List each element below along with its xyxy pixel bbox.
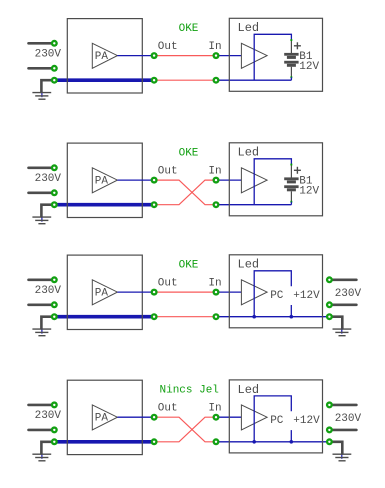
- supply wire 230V line2 (left): [29, 303, 55, 306]
- ground hookup wire (left): [41, 205, 54, 217]
- svg-text:Led: Led: [238, 258, 260, 272]
- ground hookup wire (left): [41, 80, 54, 92]
- pin node 230V-L2 left: [51, 301, 58, 308]
- ground hookup wire (left): [41, 317, 54, 329]
- ground node left: [51, 438, 58, 445]
- ground symbol (left): [32, 93, 51, 100]
- svg-text:Nincs Jel: Nincs Jel: [160, 385, 219, 397]
- PA amplifier triangle: [92, 43, 117, 68]
- signal net Out-In top (red): [154, 291, 216, 293]
- supply loop net (blue): [254, 271, 291, 317]
- svg-text:OKE: OKE: [179, 260, 199, 272]
- node In top: [213, 52, 220, 59]
- pin node 230V-L2 left: [51, 65, 58, 72]
- battery B1: [284, 39, 298, 80]
- node In bottom: [213, 438, 220, 445]
- node Out bottom: [151, 313, 158, 320]
- ground net stub (left): [41, 328, 43, 333]
- svg-text:12V: 12V: [299, 185, 319, 197]
- ground net stub (left): [41, 216, 43, 221]
- junction dot right: [290, 315, 294, 319]
- supply wire 230V line2 (right): [329, 303, 356, 306]
- ground node right: [326, 313, 333, 320]
- +12V net stub lower (blue): [290, 305, 292, 317]
- junction dot right: [290, 440, 294, 444]
- ground net stub (right): [341, 328, 343, 333]
- PA box: [67, 19, 142, 93]
- svg-text:+12V: +12V: [293, 415, 320, 427]
- pin node 230V-L1 left: [51, 276, 58, 283]
- svg-text:Led: Led: [238, 146, 260, 160]
- PA output net (blue): [117, 416, 154, 418]
- ground symbol (left): [32, 454, 51, 461]
- svg-text:PA: PA: [95, 412, 109, 424]
- node In bottom: [213, 313, 220, 320]
- node In top: [213, 414, 220, 421]
- supply loop net (blue): [254, 34, 291, 80]
- bus wire (thick blue net): [54, 315, 154, 319]
- signal net crossed A (red): [154, 180, 216, 205]
- ground net stub (left): [41, 454, 43, 459]
- Led amplifier triangle: [241, 405, 267, 430]
- node In top: [213, 289, 220, 296]
- Led box: [229, 255, 322, 328]
- svg-text:230V: 230V: [335, 288, 362, 300]
- supply wire 230V line1 (left): [29, 404, 55, 407]
- junction dot left: [252, 315, 256, 319]
- svg-text:In: In: [208, 402, 221, 414]
- svg-text:+12V: +12V: [293, 290, 320, 302]
- ground net stub (left): [41, 92, 43, 97]
- pin node 230V-L1 left: [51, 401, 58, 408]
- PA output net (blue): [117, 55, 154, 57]
- junction dot left: [252, 440, 256, 444]
- bottom return net in Led box (blue): [216, 79, 291, 81]
- bottom return net in Led box (blue): [216, 316, 329, 318]
- bottom return net in Led box (blue): [216, 441, 329, 443]
- signal net Out-In bottom (red): [154, 79, 216, 81]
- svg-text:OKE: OKE: [179, 148, 199, 160]
- svg-text:Out: Out: [158, 41, 178, 53]
- ground symbol (left): [32, 217, 51, 224]
- pin node 230V-L2 left: [51, 426, 58, 433]
- In net into Led box (blue): [216, 55, 241, 57]
- PA box: [67, 380, 142, 454]
- PA box: [67, 143, 142, 217]
- pin node 230V-L2 left: [51, 189, 58, 196]
- PA amplifier triangle: [92, 405, 117, 430]
- Led amplifier triangle: [241, 43, 267, 68]
- svg-text:12V: 12V: [299, 61, 319, 73]
- PA box: [67, 255, 142, 329]
- svg-text:Led: Led: [238, 383, 260, 397]
- ground node left: [51, 201, 58, 208]
- node Out bottom: [151, 438, 158, 445]
- svg-text:PC: PC: [270, 290, 284, 302]
- supply wire 230V line1 (right): [329, 278, 356, 281]
- node Out top: [151, 177, 158, 184]
- node Out top: [151, 414, 158, 421]
- supply wire 230V line2 (right): [329, 429, 356, 432]
- ground hookup wire (right): [329, 317, 342, 329]
- battery plus sign: [294, 42, 301, 49]
- PA output net (blue): [117, 291, 154, 293]
- node In bottom: [213, 77, 220, 84]
- svg-text:Out: Out: [158, 402, 178, 414]
- supply wire 230V line2 (left): [29, 192, 55, 195]
- ground node right: [326, 438, 333, 445]
- battery B1: [284, 164, 298, 205]
- signal net crossed B (red): [154, 180, 216, 205]
- supply wire 230V line2 (left): [29, 429, 55, 432]
- signal net crossed B (red): [154, 417, 216, 442]
- pin node 230V-R2 right: [326, 426, 333, 433]
- signal net Out-In top (red): [154, 55, 216, 57]
- pin node 230V-R1 right: [326, 401, 333, 408]
- ground node left: [51, 77, 58, 84]
- supply wire 230V line1 (right): [329, 404, 356, 407]
- +12V net stub lower (blue): [290, 430, 292, 442]
- bus wire (thick blue net): [54, 78, 154, 82]
- node In bottom: [213, 201, 220, 208]
- Led box: [229, 18, 322, 91]
- supply loop net (blue): [254, 396, 291, 442]
- pin node 230V-L1 left: [51, 164, 58, 171]
- Led amplifier triangle: [241, 280, 267, 305]
- svg-text:230V: 230V: [35, 173, 62, 185]
- svg-text:Out: Out: [158, 165, 178, 177]
- pin node 230V-R1 right: [326, 276, 333, 283]
- ground node left: [51, 313, 58, 320]
- In net into Led box (blue): [216, 291, 241, 293]
- svg-text:PA: PA: [95, 287, 109, 299]
- bottom return net in Led box (blue): [216, 204, 291, 206]
- svg-text:230V: 230V: [35, 48, 62, 60]
- svg-text:230V: 230V: [35, 285, 62, 297]
- svg-text:230V: 230V: [335, 413, 362, 425]
- node Out top: [151, 52, 158, 59]
- supply wire 230V line1 (left): [29, 278, 55, 281]
- ground symbol (left): [32, 329, 51, 336]
- bus wire (thick blue net): [54, 203, 154, 207]
- supply wire 230V line1 (left): [29, 42, 55, 45]
- In net into Led box (blue): [216, 179, 241, 181]
- ground symbol (right): [333, 454, 352, 461]
- Led box: [229, 143, 322, 216]
- node In top: [213, 177, 220, 184]
- In net into Led box (blue): [216, 416, 241, 418]
- svg-text:PA: PA: [95, 175, 109, 187]
- Led box: [229, 380, 322, 453]
- ground symbol (right): [333, 329, 352, 336]
- PA output net (blue): [117, 179, 154, 181]
- svg-text:In: In: [208, 165, 221, 177]
- supply wire 230V line2 (left): [29, 67, 55, 70]
- svg-text:Led: Led: [238, 21, 260, 35]
- Led amplifier triangle: [241, 168, 267, 193]
- node Out bottom: [151, 201, 158, 208]
- signal net crossed A (red): [154, 417, 216, 442]
- supply wire 230V line1 (left): [29, 167, 55, 170]
- pin node 230V-L1 left: [51, 40, 58, 47]
- node Out bottom: [151, 77, 158, 84]
- battery plus sign: [294, 167, 301, 174]
- bus wire (thick blue net): [54, 440, 154, 444]
- pin node 230V-R2 right: [326, 301, 333, 308]
- PA amplifier triangle: [92, 168, 117, 193]
- svg-text:In: In: [208, 277, 221, 289]
- svg-text:PC: PC: [270, 415, 284, 427]
- signal net Out-In bottom (red): [154, 316, 216, 318]
- ground hookup wire (right): [329, 442, 342, 454]
- svg-text:OKE: OKE: [179, 23, 199, 35]
- ground hookup wire (left): [41, 442, 54, 454]
- PA amplifier triangle: [92, 280, 117, 305]
- node Out top: [151, 289, 158, 296]
- supply loop net (blue): [254, 159, 291, 205]
- svg-text:230V: 230V: [35, 410, 62, 422]
- ground net stub (right): [341, 454, 343, 459]
- svg-text:Out: Out: [158, 277, 178, 289]
- svg-text:PA: PA: [95, 51, 109, 63]
- svg-text:In: In: [208, 41, 221, 53]
